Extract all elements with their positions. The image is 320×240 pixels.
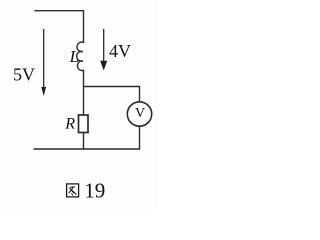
svg-text:19: 19 <box>84 179 105 203</box>
wire voltmeter bottom <box>139 126 141 149</box>
svg-text:R: R <box>64 116 75 133</box>
wire junction to voltmeter top <box>84 87 140 102</box>
caption character 图 <box>67 184 79 197</box>
svg-text:L: L <box>69 47 79 66</box>
voltmeter U1 circle <box>127 102 151 126</box>
svg-text:4V: 4V <box>109 41 131 61</box>
resistor R body <box>79 115 89 133</box>
svg-text:5V: 5V <box>13 65 35 85</box>
svg-text:V: V <box>135 106 145 121</box>
wire right vertical top <box>83 11 85 43</box>
wire below resistor <box>83 133 85 150</box>
wire bottom horizontal <box>34 148 140 150</box>
wire top horizontal <box>35 10 84 12</box>
inductor L coil <box>77 42 84 71</box>
wire inductor to resistor <box>83 70 85 115</box>
arrow 4V <box>100 29 107 71</box>
arrow 5V <box>41 29 46 96</box>
